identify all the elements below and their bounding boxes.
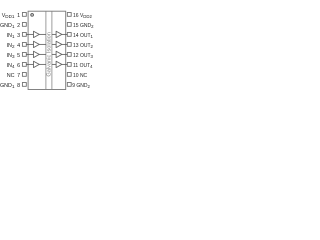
pin 1 indicator dot (31, 14, 34, 17)
channel 2 wire from barrier (52, 43, 56, 45)
channel 4 input wire (26, 63, 33, 65)
pin 16 box (67, 13, 71, 17)
svg-text:IN1: IN1 (7, 33, 15, 39)
svg-text:IN4: IN4 (7, 63, 15, 69)
svg-text:6: 6 (17, 63, 20, 69)
channel 2 output wire (62, 43, 68, 45)
channel 2 buffer B2 (56, 41, 62, 47)
channel 1 input wire (26, 33, 33, 35)
pin 5 box (22, 53, 26, 57)
channel 3 buffer A3 (34, 51, 40, 57)
svg-text:GND1: GND1 (0, 83, 15, 89)
channel 3 wire to barrier (39, 53, 46, 55)
svg-text:4: 4 (17, 43, 20, 49)
channel 3 output wire (62, 53, 68, 55)
channel 4 buffer B4 (56, 61, 62, 67)
svg-text:GND1: GND1 (0, 23, 15, 29)
svg-text:8: 8 (17, 83, 20, 89)
channel 4 wire to barrier (39, 63, 46, 65)
channel 4 buffer A4 (34, 61, 40, 67)
pin 11 box (67, 63, 71, 67)
pin 4 box (22, 43, 26, 47)
pin 8 box (22, 83, 26, 87)
channel 4 wire from barrier (52, 63, 56, 65)
pin 15 box (67, 23, 71, 27)
svg-text:1: 1 (17, 13, 20, 19)
channel 1 buffer B1 (56, 31, 62, 37)
channel 3 wire from barrier (52, 53, 56, 55)
channel 4 output wire (62, 63, 68, 65)
svg-text:16 VDD2: 16 VDD2 (73, 13, 93, 19)
channel 3 input wire (26, 53, 33, 55)
pin 14 box (67, 33, 71, 37)
svg-text:2: 2 (17, 23, 20, 29)
channel 2 input wire (26, 43, 33, 45)
pin 12 box (67, 53, 71, 57)
pin 9 box (67, 83, 71, 87)
pin 13 box (67, 43, 71, 47)
svg-text:3: 3 (17, 33, 20, 39)
pin 6 box (22, 63, 26, 67)
pin 3 box (22, 33, 26, 37)
isolation barrier line left (45, 11, 47, 89)
pin 2 box (22, 23, 26, 27)
svg-text:5: 5 (17, 53, 20, 59)
svg-text:IN3: IN3 (7, 53, 15, 59)
channel 2 buffer A2 (34, 41, 40, 47)
svg-text:9 GND2: 9 GND2 (72, 83, 90, 89)
channel 1 output wire (62, 33, 68, 35)
channel 1 wire to barrier (39, 33, 46, 35)
svg-text:NC: NC (7, 73, 15, 79)
pin 1 box (22, 13, 26, 17)
svg-text:10 NC: 10 NC (73, 73, 88, 79)
svg-text:VDD1: VDD1 (2, 13, 15, 19)
svg-text:13 OUT2: 13 OUT2 (73, 43, 94, 49)
channel 1 wire from barrier (52, 33, 56, 35)
svg-text:12 OUT3: 12 OUT3 (73, 53, 94, 59)
svg-text:11 OUT4: 11 OUT4 (73, 63, 93, 69)
svg-text:Galvanic Isolation: Galvanic Isolation (47, 32, 53, 77)
pin 10 box (67, 73, 71, 77)
channel 3 buffer B3 (56, 51, 62, 57)
isolation barrier line right (51, 11, 53, 89)
chip body U1 (28, 11, 66, 89)
svg-text:14 OUT1: 14 OUT1 (73, 33, 94, 39)
svg-text:7: 7 (17, 73, 20, 79)
svg-text:IN2: IN2 (7, 43, 15, 49)
channel 1 buffer A1 (34, 31, 40, 37)
svg-text:15 GND2: 15 GND2 (73, 23, 94, 29)
pin 7 box (22, 73, 26, 77)
channel 2 wire to barrier (39, 43, 46, 45)
